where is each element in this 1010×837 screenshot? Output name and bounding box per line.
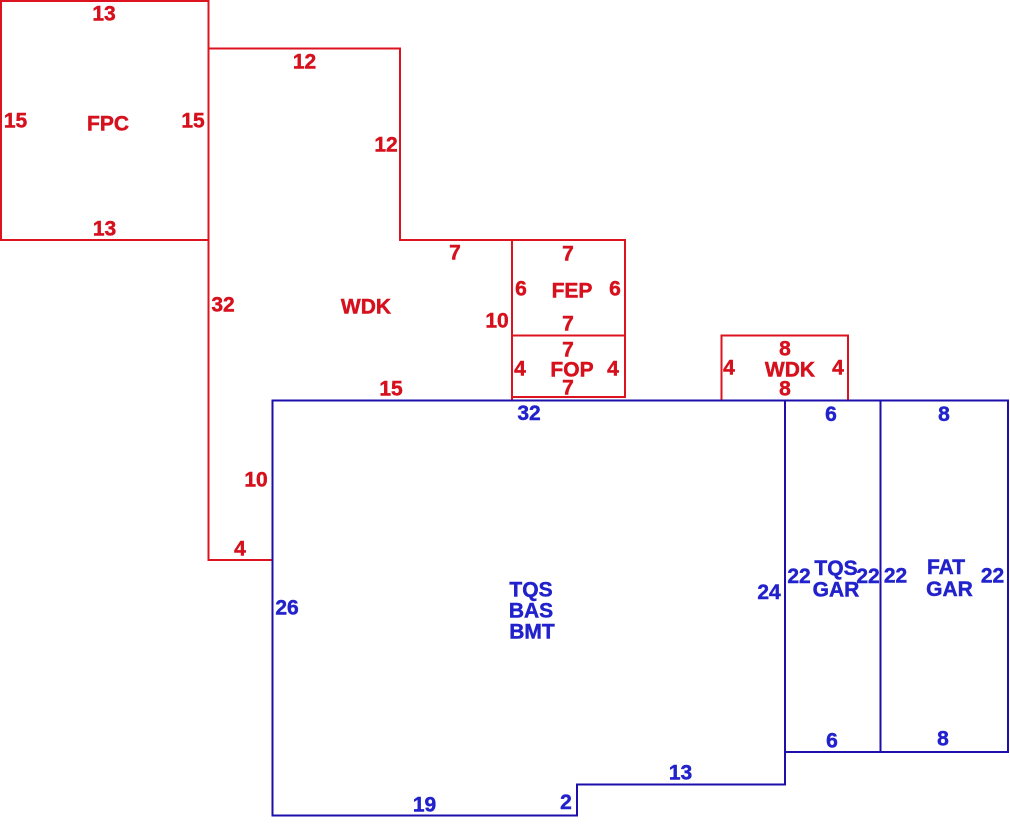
svg-text:13: 13	[669, 762, 692, 785]
FOP outline	[512, 336, 625, 398]
svg-text:4: 4	[723, 356, 735, 379]
svg-text:8: 8	[937, 727, 949, 750]
svg-text:FPC: FPC	[87, 112, 129, 135]
svg-text:32: 32	[211, 293, 234, 316]
WDK2 outline	[722, 336, 849, 401]
svg-text:12: 12	[293, 50, 316, 73]
svg-text:6: 6	[515, 277, 527, 300]
WDK porch outline	[209, 49, 513, 561]
svg-text:13: 13	[92, 2, 115, 25]
TQS GAR outline	[785, 401, 881, 753]
svg-text:7: 7	[562, 312, 574, 335]
svg-text:GAR: GAR	[813, 578, 860, 601]
svg-text:15: 15	[379, 377, 403, 400]
svg-text:15: 15	[181, 109, 205, 132]
svg-text:TQS: TQS	[509, 578, 552, 601]
svg-text:19: 19	[413, 793, 436, 816]
svg-text:10: 10	[485, 309, 508, 332]
svg-text:13: 13	[93, 217, 116, 240]
svg-text:8: 8	[938, 403, 950, 426]
svg-text:22: 22	[856, 565, 879, 588]
svg-text:8: 8	[779, 377, 791, 400]
svg-text:FEP: FEP	[552, 279, 593, 302]
svg-text:4: 4	[514, 357, 526, 380]
svg-text:4: 4	[234, 537, 246, 560]
FPC outline	[1, 1, 209, 240]
svg-text:7: 7	[449, 241, 461, 264]
svg-text:32: 32	[517, 402, 540, 425]
FAT GAR outline	[881, 401, 1009, 753]
svg-text:6: 6	[825, 403, 837, 426]
svg-text:22: 22	[884, 564, 907, 587]
svg-text:2: 2	[560, 791, 572, 814]
TQS BAS BMT outline	[273, 401, 786, 816]
svg-text:7: 7	[562, 242, 574, 265]
svg-text:4: 4	[832, 356, 844, 379]
svg-text:WDK: WDK	[341, 295, 391, 318]
svg-text:BMT: BMT	[509, 620, 555, 643]
svg-text:22: 22	[787, 565, 810, 588]
FEP outline	[512, 240, 625, 336]
svg-text:7: 7	[562, 376, 574, 399]
svg-text:24: 24	[757, 581, 781, 604]
svg-text:6: 6	[609, 277, 621, 300]
svg-text:4: 4	[607, 357, 619, 380]
svg-text:GAR: GAR	[926, 578, 973, 601]
svg-text:BAS: BAS	[509, 599, 553, 622]
svg-text:TQS: TQS	[814, 557, 857, 580]
svg-text:10: 10	[244, 468, 267, 491]
svg-text:15: 15	[4, 109, 28, 132]
svg-text:8: 8	[779, 337, 791, 360]
svg-text:FAT: FAT	[927, 556, 965, 579]
svg-text:12: 12	[374, 133, 397, 156]
svg-text:6: 6	[826, 729, 838, 752]
svg-text:26: 26	[275, 596, 298, 619]
svg-text:22: 22	[981, 564, 1004, 587]
